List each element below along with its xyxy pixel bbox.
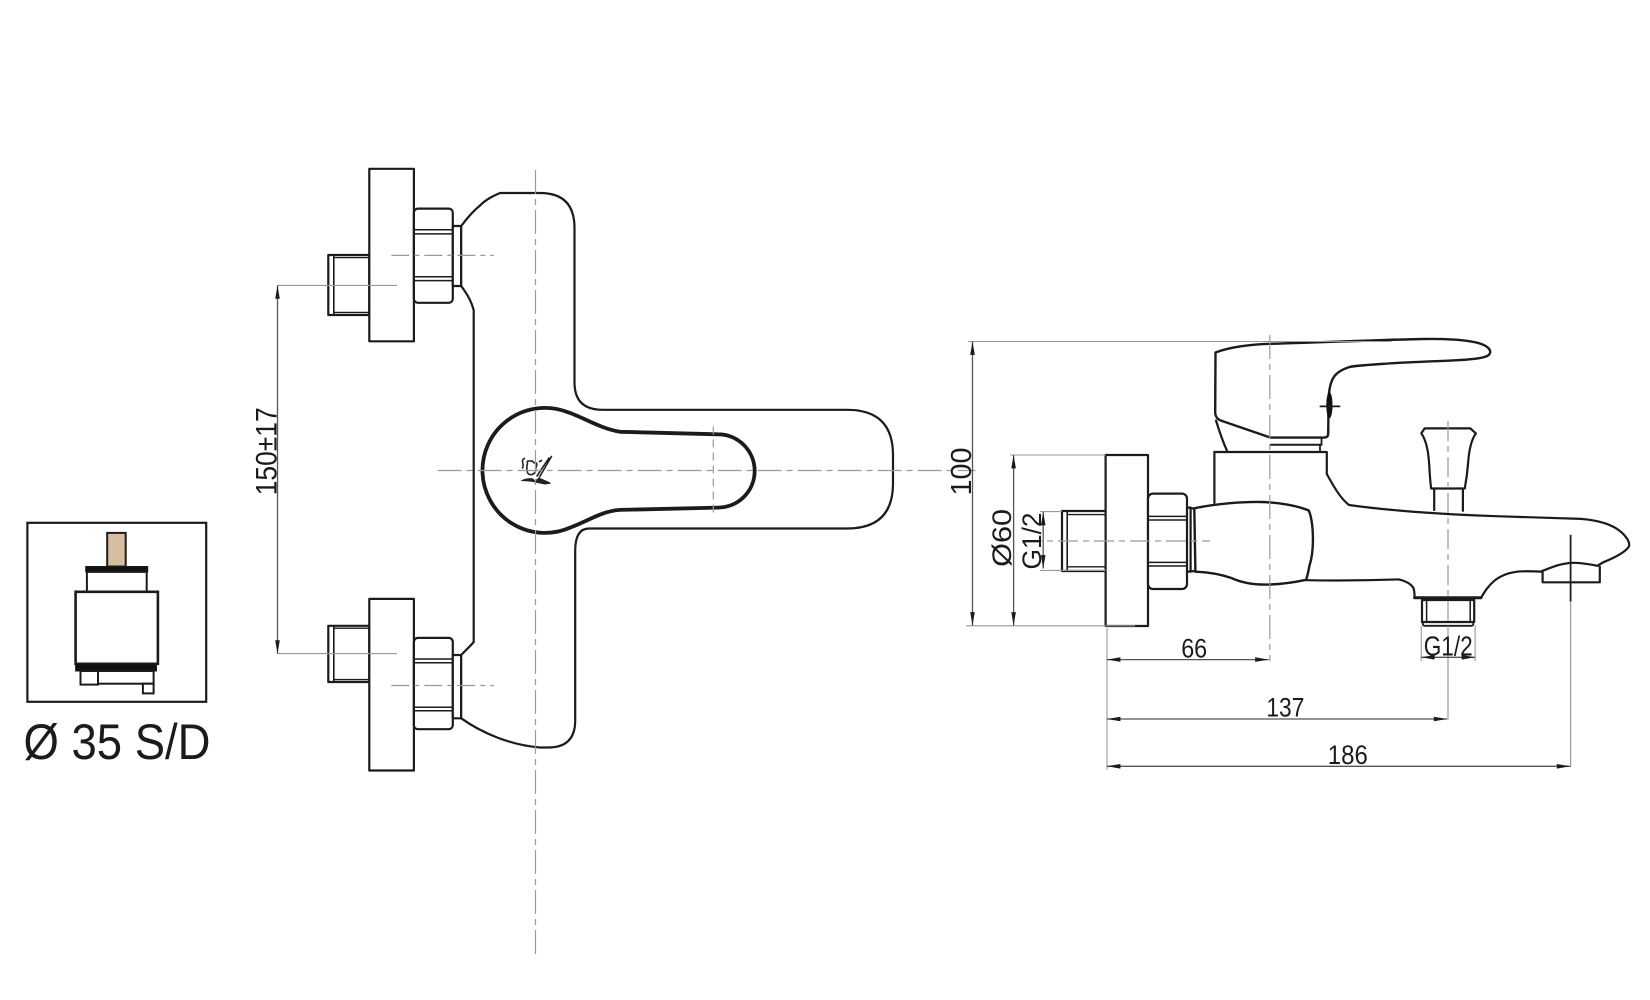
svg-text:Ø 35 S/D: Ø 35 S/D bbox=[24, 714, 211, 770]
svg-text:186: 186 bbox=[1328, 740, 1368, 770]
svg-text:137: 137 bbox=[1266, 693, 1304, 723]
svg-text:100: 100 bbox=[946, 448, 978, 496]
svg-text:G1/2: G1/2 bbox=[1017, 513, 1047, 570]
svg-text:G1/2: G1/2 bbox=[1424, 631, 1473, 662]
svg-text:Ø60: Ø60 bbox=[987, 509, 1017, 567]
svg-text:66: 66 bbox=[1181, 634, 1207, 664]
svg-text:150±17: 150±17 bbox=[251, 407, 284, 495]
